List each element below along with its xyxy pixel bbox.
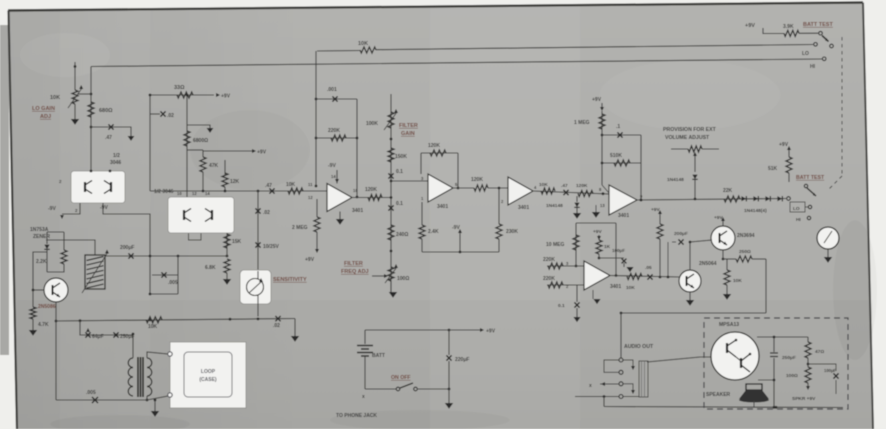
svg-text:64μF: 64μF [92,334,104,340]
svg-text:BATT TEST: BATT TEST [796,175,825,181]
svg-text:+9V: +9V [593,229,602,235]
svg-text:LO: LO [802,51,809,57]
svg-text:+9V: +9V [714,215,723,221]
svg-text:0.1: 0.1 [396,201,403,207]
svg-text:-9V: -9V [48,206,56,212]
svg-text:0.1: 0.1 [558,303,565,309]
svg-text:2N3694: 2N3694 [737,233,755,239]
svg-text:ADJ: ADJ [40,114,51,120]
svg-text:SENSITIVITY: SENSITIVITY [273,277,307,283]
svg-text:+9V: +9V [257,150,267,156]
svg-text:33Ω: 33Ω [174,85,185,91]
svg-text:.1: .1 [616,124,620,130]
svg-text:LOOP: LOOP [201,369,216,375]
svg-text:1N753A: 1N753A [30,227,49,233]
svg-text:220K: 220K [543,276,555,282]
svg-text:4.7K: 4.7K [38,322,49,328]
svg-text:12: 12 [308,195,313,200]
svg-text:2N5086: 2N5086 [38,304,56,310]
svg-text:1 MEG: 1 MEG [574,120,590,126]
svg-text:+9V: +9V [486,329,496,335]
svg-text:10K: 10K [626,285,635,291]
svg-text:-9V: -9V [452,225,460,231]
svg-text:TO PHONE JACK: TO PHONE JACK [336,413,377,419]
svg-text:10K: 10K [50,95,60,101]
svg-text:10K: 10K [286,182,296,188]
svg-text:100Ω: 100Ω [397,276,409,282]
svg-text:10K: 10K [358,41,368,47]
svg-text:.05: .05 [645,265,652,271]
svg-text:3401: 3401 [437,204,448,210]
svg-text:.02: .02 [263,210,270,216]
svg-text:250Ω: 250Ω [739,249,751,255]
svg-text:.47: .47 [561,183,568,189]
svg-text:2N5064: 2N5064 [699,261,717,267]
svg-text:SPKR +9V: SPKR +9V [792,396,816,402]
svg-text:3401: 3401 [618,213,629,219]
svg-text:FILTER: FILTER [344,261,363,267]
svg-text:3401: 3401 [610,284,621,290]
svg-text:0.1: 0.1 [396,169,403,175]
svg-text:AUDIO OUT: AUDIO OUT [624,344,654,350]
svg-text:680Ω: 680Ω [99,108,113,114]
svg-text:120K: 120K [365,187,377,193]
svg-text:120K: 120K [471,177,483,183]
svg-text:(CASE): (CASE) [199,377,217,383]
svg-text:.005: .005 [168,280,178,286]
svg-text:LO: LO [793,206,800,212]
svg-text:11: 11 [308,182,313,187]
svg-text:47Ω: 47Ω [815,349,824,355]
svg-text:-9V: -9V [328,163,336,169]
svg-text:+9V: +9V [221,94,231,100]
svg-text:100Ω: 100Ω [786,373,798,379]
svg-text:FREQ ADJ: FREQ ADJ [341,269,369,275]
svg-text:HI: HI [796,217,801,223]
svg-text:14: 14 [331,174,336,179]
svg-text:250μF: 250μF [782,355,796,361]
svg-text:.02: .02 [273,323,280,329]
svg-text:LO GAIN: LO GAIN [32,106,55,112]
svg-text:.001: .001 [327,87,337,93]
svg-text:BATT TEST: BATT TEST [803,22,833,28]
svg-text:1N4148: 1N4148 [667,177,684,183]
svg-text:120K: 120K [576,183,588,189]
svg-text:1K: 1K [604,244,611,250]
svg-text:+9V: +9V [779,142,789,148]
svg-text:ON OFF: ON OFF [391,375,411,381]
svg-text:13: 13 [600,203,605,208]
svg-text:22K: 22K [723,188,733,194]
svg-text:150K: 150K [395,154,407,160]
svg-text:1N4148(4): 1N4148(4) [744,208,767,214]
svg-text:6.8K: 6.8K [205,265,216,271]
svg-text:10: 10 [177,191,182,196]
svg-text:10 MEG: 10 MEG [546,242,564,248]
svg-text:220μF: 220μF [455,357,469,363]
svg-text:HI: HI [810,64,816,70]
svg-text:2.4K: 2.4K [428,229,439,235]
svg-text:PROVISION FOR EXT: PROVISION FOR EXT [663,127,717,133]
svg-text:-9V: -9V [100,205,108,211]
svg-text:230K: 230K [506,229,518,235]
svg-text:MPSA13: MPSA13 [719,322,739,328]
svg-text:x: x [589,383,592,389]
svg-text:1N4148: 1N4148 [546,203,563,209]
svg-text:+9V: +9V [592,97,602,103]
svg-text:12: 12 [192,191,197,196]
svg-text:200μF: 200μF [120,245,134,251]
svg-text:ZENER: ZENER [33,234,50,240]
svg-text:BATT: BATT [372,353,385,359]
svg-text:3401: 3401 [518,205,529,211]
svg-text:FILTER: FILTER [399,123,418,129]
svg-text:10K: 10K [539,182,548,188]
svg-text:.02: .02 [167,113,174,119]
svg-text:VOLUME ADJUST: VOLUME ADJUST [665,135,710,141]
svg-text:3.9K: 3.9K [783,24,794,30]
svg-text:.47: .47 [265,183,272,189]
svg-text:510K: 510K [610,153,622,159]
svg-text:3401: 3401 [352,208,363,214]
svg-text:15K: 15K [232,239,242,245]
svg-text:200μF: 200μF [674,231,688,237]
svg-text:.005: .005 [86,390,96,396]
svg-text:2 MEG: 2 MEG [292,225,308,231]
svg-text:10K: 10K [148,324,158,330]
svg-text:2.2K: 2.2K [36,259,47,265]
svg-text:220K: 220K [328,128,340,134]
svg-text:SPEAKER: SPEAKER [706,392,731,398]
svg-text:12K: 12K [230,179,240,185]
svg-text:+9V: +9V [305,257,315,263]
svg-text:100μF: 100μF [612,248,625,253]
svg-text:10: 10 [353,188,358,193]
svg-text:100μF: 100μF [824,368,837,373]
svg-text:1/2: 1/2 [113,153,120,159]
svg-text:14: 14 [205,191,210,196]
svg-text:10K: 10K [733,278,742,284]
svg-text:220K: 220K [543,257,555,263]
svg-text:3046: 3046 [110,160,121,166]
svg-text:x: x [362,394,365,400]
svg-text:10/25V: 10/25V [263,244,280,250]
svg-text:51K: 51K [768,166,778,172]
svg-text:120K: 120K [428,143,440,149]
svg-text:+9V: +9V [651,207,660,213]
svg-text:+9V: +9V [745,23,755,29]
svg-text:6800Ω: 6800Ω [193,138,208,144]
svg-text:240Ω: 240Ω [396,232,408,238]
svg-text:100K: 100K [366,121,378,127]
svg-text:.47: .47 [105,135,112,141]
svg-text:47K: 47K [209,163,219,169]
svg-text:GAIN: GAIN [401,131,415,137]
svg-text:1/2 3046: 1/2 3046 [154,189,174,195]
